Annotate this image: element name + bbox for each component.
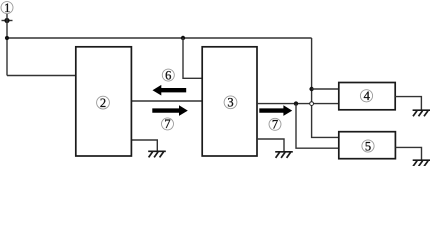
svg-text:4: 4	[364, 89, 371, 103]
box 3	[202, 47, 257, 156]
label 7 right	[269, 118, 281, 132]
arrow 7 mid right-pointing	[152, 105, 188, 116]
label 4	[360, 89, 372, 103]
svg-text:1: 1	[4, 1, 10, 15]
wire bus drop into box 3	[183, 38, 202, 78]
ground right of box 5	[413, 160, 430, 166]
svg-text:5: 5	[365, 139, 371, 153]
wire main horizontal bus	[7, 37, 312, 39]
svg-text:7: 7	[164, 117, 170, 131]
svg-text:6: 6	[165, 68, 171, 82]
junction on bus at left	[5, 36, 9, 40]
svg-text:2: 2	[100, 96, 106, 110]
wire branch into box 4	[312, 88, 339, 90]
box 5	[339, 132, 396, 159]
wire into box 2 left	[7, 75, 76, 77]
ground under box 2	[148, 151, 166, 157]
svg-text:7: 7	[272, 118, 278, 132]
terminal T1 dot and tick	[2, 18, 13, 23]
wire box 3 ground stub	[257, 139, 284, 152]
label 2	[97, 96, 110, 110]
box 4	[339, 83, 395, 110]
arrow 7 right-pointing at box 3 output	[259, 105, 292, 116]
label 7 mid	[162, 117, 174, 131]
label 3	[224, 96, 237, 110]
wire branch down into box 5	[296, 104, 339, 149]
junction feeding box 5 lower input	[294, 101, 298, 105]
label 5	[362, 139, 374, 153]
svg-text:3: 3	[227, 96, 233, 110]
arrow 6 left-pointing	[153, 85, 187, 96]
box 2	[76, 47, 132, 156]
junction on bus above box 3	[181, 36, 185, 40]
wire box 5 to ground	[395, 147, 421, 160]
node 1 circled label	[1, 1, 13, 15]
wire box 3 output to box 4	[257, 103, 339, 105]
crossover no-connection circle	[310, 102, 314, 106]
ground under box 3	[275, 152, 293, 158]
wire vertical right branch from bus	[312, 38, 339, 137]
wire box 2 to box 3	[132, 100, 203, 102]
label 6	[162, 68, 174, 82]
wire box 2 ground stub	[132, 140, 158, 151]
ground right of box 4	[413, 110, 430, 116]
junction feeding box 4 upper input	[309, 87, 313, 91]
wire box 4 to ground	[395, 97, 421, 110]
wire terminal down left side	[6, 14, 8, 76]
